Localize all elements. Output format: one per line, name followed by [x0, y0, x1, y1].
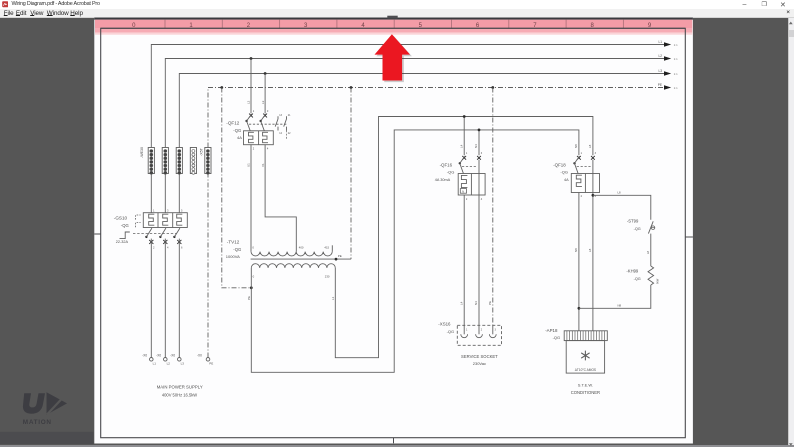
svg-text:L4: L4: [459, 144, 463, 148]
svg-text:1000VA: 1000VA: [226, 254, 240, 259]
wire QF12 to TV12 primary 0: [250, 145, 252, 252]
svg-text:N8: N8: [618, 303, 622, 307]
svg-text:-QG: -QG: [634, 227, 641, 231]
wire GS10 to terminal L1: [150, 239, 152, 358]
svg-text:-QF12: -QF12: [226, 121, 239, 126]
wire QF18 L to AP18: [592, 193, 594, 331]
label XS16: [438, 321, 454, 333]
svg-text:PE: PE: [488, 301, 492, 305]
svg-text:PE: PE: [209, 361, 213, 365]
svg-text:2.1: 2.1: [674, 86, 678, 90]
wire QF12 to TV12 primary 400: [265, 145, 296, 252]
svg-text:L8: L8: [618, 190, 622, 194]
QF12 auxiliary contact 13-14: [275, 114, 282, 135]
terminal strip -WE30 block 1: [148, 148, 154, 175]
label QF18: [553, 162, 569, 182]
svg-text:-QG: -QG: [560, 170, 568, 175]
wire L3 tap to QF12: [264, 74, 266, 114]
GS10 release hooks: [136, 215, 141, 220]
QF18 body: [571, 174, 599, 198]
svg-text:N: N: [462, 189, 464, 193]
GS10 pole blades and trip crosses: [145, 228, 181, 244]
svg-text:4A: 4A: [564, 178, 569, 182]
label GS10: [114, 216, 129, 245]
svg-text:PE: PE: [338, 254, 342, 258]
svg-text:22-32A: 22-32A: [116, 240, 129, 244]
wire L3 bus: [179, 74, 664, 213]
node junction secondary 0 / PE: [250, 286, 253, 289]
svg-text:CONDITIONER: CONDITIONER: [571, 390, 600, 395]
QF12 auxiliary contact 21-22: [284, 114, 291, 140]
label QF16: [435, 162, 455, 182]
label AP18: [545, 328, 560, 340]
svg-text:ΔT10°C AMOS: ΔT10°C AMOS: [575, 368, 596, 372]
GS10 pin numbers: [153, 209, 183, 250]
svg-text:-X0: -X0: [142, 354, 147, 358]
svg-text:N4: N4: [474, 301, 478, 305]
svg-text:L4: L4: [459, 301, 463, 305]
svg-text:V1: V1: [261, 163, 265, 167]
QF16 body: [458, 174, 485, 201]
wire QF16 to socket N: [478, 195, 480, 325]
svg-text:L3: L3: [261, 100, 265, 104]
svg-text:-QF18: -QF18: [553, 162, 566, 167]
label QF12: [226, 121, 242, 140]
svg-text:-X5T: -X5T: [199, 147, 203, 156]
wire QF16 to socket L: [463, 195, 465, 325]
TV12 tap 415 stub: [331, 245, 333, 251]
label TV12: [226, 240, 241, 259]
svg-text:4A 30mA: 4A 30mA: [435, 178, 451, 182]
wire L bus tap to QF16: [463, 117, 465, 156]
circuit breaker QF12 contacts: [245, 109, 268, 131]
wire GS10 to terminal L2: [164, 239, 166, 358]
svg-text:4A: 4A: [237, 135, 242, 140]
svg-text:N4: N4: [474, 144, 478, 148]
transformer TV12 primary winding: [251, 252, 332, 256]
svg-text:L2: L2: [167, 361, 171, 365]
wire PE to secondary neutral (dash-dot): [222, 88, 252, 288]
label SERVICE SOCKET: [461, 354, 498, 366]
circuit breaker QF16 contacts: [459, 152, 483, 173]
svg-text:-X0: -X0: [197, 354, 202, 358]
svg-text:N8: N8: [574, 144, 578, 148]
svg-text:L2: L2: [658, 54, 662, 58]
wire L1 bus: [151, 45, 664, 213]
svg-text:-X0: -X0: [156, 354, 161, 358]
wire secondary L loop to L bus: [335, 117, 593, 358]
svg-text:2.1: 2.1: [674, 43, 678, 47]
wire L2 bus: [165, 59, 664, 213]
svg-text:L8: L8: [588, 144, 592, 148]
svg-text:2.1: 2.1: [674, 72, 678, 76]
terminal strip -WE30 block 5: [205, 148, 211, 175]
svg-text:L3: L3: [658, 69, 662, 73]
TV12 secondary tap labels: [253, 275, 330, 279]
svg-text:MATION: MATION: [23, 419, 52, 426]
svg-text:90W: 90W: [655, 278, 659, 284]
svg-text:-QG: -QG: [233, 247, 241, 252]
terminal strip -WE30 block 3: [176, 148, 182, 175]
conditioner unit AP18 box: [566, 341, 604, 374]
node junction PE/socket: [491, 86, 494, 89]
terminal strip -WE30 block 2: [162, 148, 168, 175]
svg-text:230: 230: [325, 275, 330, 279]
svg-text:-AP18: -AP18: [545, 328, 558, 333]
svg-text:-QG: -QG: [233, 128, 241, 133]
node junction L/QF16: [463, 115, 466, 118]
node junction shield/PE: [335, 258, 338, 261]
svg-text:-QG: -QG: [634, 277, 641, 281]
svg-text:N8: N8: [574, 248, 578, 252]
node L2 off-page arrow: [658, 54, 678, 61]
annotation red arrow: [375, 34, 412, 82]
svg-text:-QG: -QG: [447, 329, 455, 334]
svg-text:L3: L3: [181, 361, 185, 365]
svg-text:L2: L2: [247, 100, 251, 104]
wire KH99 return to N8: [579, 285, 651, 308]
node junction PE/transformer earth: [220, 86, 223, 89]
svg-text:400: 400: [299, 246, 304, 250]
node junction N/QF16: [478, 129, 481, 132]
wire PE drop to socket (dash-dot): [492, 88, 494, 326]
wire QF18 N to AP18: [578, 193, 580, 331]
terminal -X0 L1: [142, 354, 156, 366]
svg-text:-QG: -QG: [447, 170, 455, 175]
svg-text:-TV12: -TV12: [227, 240, 240, 245]
svg-text:-XS16: -XS16: [438, 321, 451, 326]
svg-text:-QF16: -QF16: [440, 162, 453, 167]
label MAIN POWER SUPPLY: [157, 385, 203, 398]
terminal -X0 L3: [170, 354, 184, 366]
node L1 off-page arrow: [658, 40, 678, 47]
svg-text:U1: U1: [247, 163, 251, 167]
terminal -X0 L2: [156, 354, 170, 366]
QF12 body: [244, 131, 274, 151]
wire PE bus (dash-dot): [208, 88, 664, 358]
svg-text:-GS10: -GS10: [114, 216, 128, 221]
wire N bus tap to QF16: [478, 130, 480, 155]
node junction L3/QF12: [264, 72, 267, 75]
svg-text:230Vac: 230Vac: [473, 361, 486, 366]
svg-text:-X0: -X0: [170, 354, 175, 358]
TV12 primary tap labels: [252, 246, 329, 250]
svg-text:-QG: -QG: [121, 223, 129, 228]
socket outlet XS16: [457, 325, 501, 345]
circuit breaker QF18 contacts: [573, 152, 596, 173]
terminal strip -WE30 block 4: [190, 148, 196, 175]
node junction L2/QF12: [250, 57, 253, 60]
svg-text:L8: L8: [588, 248, 592, 252]
QF18 linkage dashed: [577, 166, 591, 168]
node junction N8 branch: [578, 307, 581, 310]
label S.T.E.W. CONDITIONER: [571, 382, 600, 394]
wire GS10 to terminal L3: [178, 239, 180, 358]
TV12 screen / shield line: [251, 254, 351, 259]
QF16 linkage dashed: [462, 166, 477, 168]
svg-text:L8: L8: [646, 250, 650, 254]
node L3 off-page arrow: [658, 69, 678, 76]
svg-text:415: 415: [324, 246, 329, 250]
switch-disconnector GS10: [143, 213, 187, 228]
wire L2 tap to QF12: [250, 59, 252, 114]
svg-text:-ST99: -ST99: [627, 219, 639, 224]
wire PE drop to TV12 shield (dash-dot): [350, 88, 352, 260]
svg-text:L1: L1: [153, 361, 157, 365]
svg-text:SERVICE SOCKET: SERVICE SOCKET: [461, 354, 498, 359]
terminal -X0 PE: [197, 354, 213, 366]
node junction L8 branch: [592, 194, 595, 197]
node PE off-page arrow: [658, 83, 678, 90]
wire ST99 to KH99: [646, 234, 651, 266]
svg-text:MAIN POWER SUPPLY: MAIN POWER SUPPLY: [157, 385, 203, 390]
svg-text:-WE30: -WE30: [140, 147, 144, 158]
svg-text:-KH99: -KH99: [626, 269, 639, 274]
svg-text:2.1: 2.1: [674, 57, 678, 61]
wire secondary N loop to N bus: [251, 130, 579, 372]
svg-text:L1: L1: [658, 40, 662, 44]
QF12 linkage dashed: [249, 123, 287, 125]
svg-text:S.T.E.W.: S.T.E.W.: [578, 382, 593, 387]
heater resistor KH99: [626, 266, 659, 285]
svg-text:L1: L1: [331, 296, 335, 300]
AP18 terminal strip: [564, 331, 607, 341]
GS10 mechanical linkage (dashed): [133, 233, 177, 235]
wire QF18 to ST99: [593, 190, 651, 219]
GS10 manual operator handle: [120, 232, 130, 239]
svg-text:PE: PE: [658, 83, 662, 87]
transformer TV12 secondary winding: [251, 264, 335, 268]
svg-text:400V 50Hz 16.5kW: 400V 50Hz 16.5kW: [162, 393, 197, 398]
thermostat ST99: [627, 219, 655, 234]
node junction PE/TV12 shield: [350, 86, 353, 89]
svg-text:-QG: -QG: [553, 335, 561, 340]
svg-text:PE: PE: [247, 296, 251, 300]
